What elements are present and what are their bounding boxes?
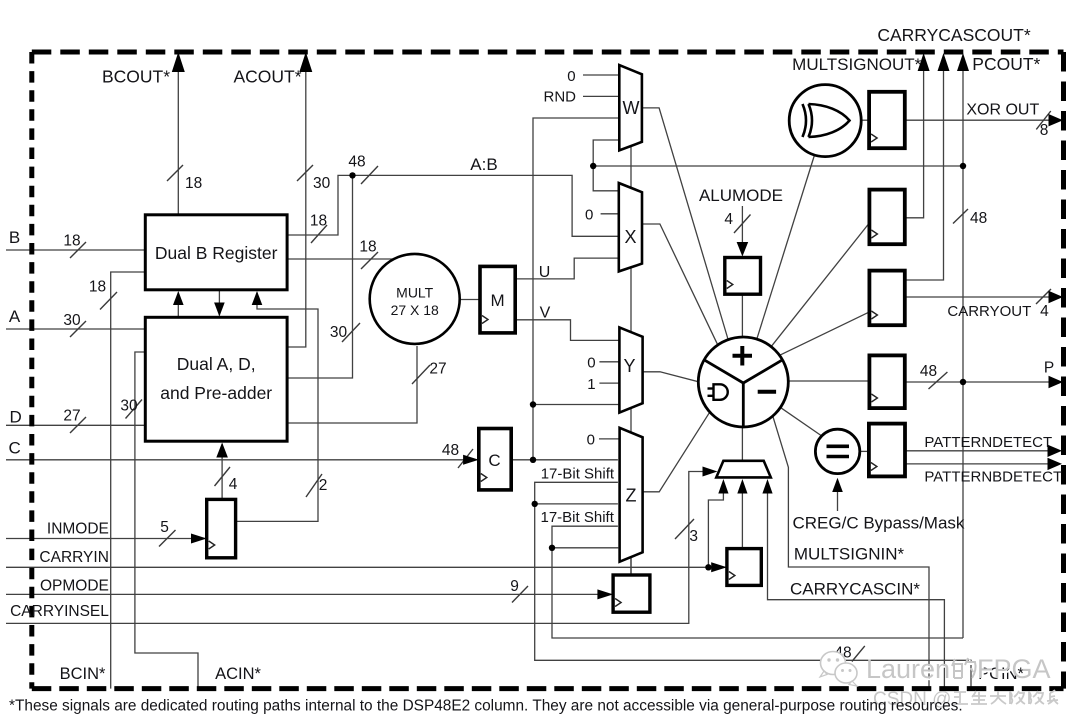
wire XOR OUT to border bbox=[905, 119, 1060, 121]
wire P register output to border bbox=[905, 381, 1060, 383]
wire Y mux output to ALU bbox=[643, 372, 699, 382]
wire ALU to P register bbox=[787, 380, 870, 382]
wire BCOUT vertical to top arrow bbox=[177, 57, 179, 215]
clock chevron C bbox=[481, 474, 487, 482]
svg-text:17-Bit Shift: 17-Bit Shift bbox=[541, 466, 615, 483]
wire input OPMODE bbox=[6, 593, 613, 595]
arrowhead OPMODE into register bbox=[597, 589, 613, 599]
svg-text:18: 18 bbox=[359, 239, 376, 256]
wire interbox arrow up left bbox=[177, 293, 179, 318]
svg-text:V: V bbox=[540, 305, 551, 322]
svg-text:M: M bbox=[491, 291, 505, 310]
wire P feedback to Z mux 17-bit shift bbox=[552, 526, 963, 638]
arrowhead BCOUT bbox=[172, 52, 185, 72]
svg-text:X: X bbox=[624, 227, 636, 247]
Dual B Register box bbox=[145, 215, 287, 290]
ALU partition lines bbox=[705, 360, 783, 427]
svg-text:17-Bit Shift: 17-Bit Shift bbox=[541, 509, 615, 526]
arrowhead INMODE into register bbox=[191, 534, 207, 544]
register OPMODE bbox=[613, 575, 650, 612]
svg-text:18: 18 bbox=[310, 213, 327, 230]
arrowhead XOR OUT border bbox=[1049, 114, 1064, 126]
slash bus width A 30 bbox=[70, 321, 86, 337]
wire input A bbox=[6, 328, 145, 330]
wire C register out to Z mux bbox=[511, 459, 618, 461]
arrowhead CARRYIN into register bbox=[711, 562, 727, 572]
wire M register V out to Y mux bbox=[515, 320, 619, 341]
svg-text:48: 48 bbox=[348, 154, 365, 171]
wire ALU to MULTSIGNOUT register bbox=[771, 223, 869, 347]
wire P branch to Z mux input 6 bbox=[552, 547, 618, 549]
wire X mux output to ALU bbox=[642, 224, 718, 345]
slash bus width CARRYOUT 4 bbox=[1036, 289, 1051, 304]
arrowhead P border bbox=[1049, 376, 1064, 388]
svg-text:ALUMODE: ALUMODE bbox=[699, 186, 783, 205]
wire ALUMODE register to ALU bbox=[741, 294, 743, 337]
svg-text:C: C bbox=[488, 451, 500, 470]
wire stub 1 into Y mux bbox=[599, 382, 619, 384]
arrowhead CARRYOUT border bbox=[1049, 291, 1064, 303]
register ALUMODE bbox=[725, 258, 761, 295]
wire MULTSIGNIN from bottom border to ALU bbox=[773, 416, 929, 689]
svg-text:Dual A, D,: Dual A, D, bbox=[177, 354, 256, 374]
slash bus width D 27 bbox=[70, 417, 86, 433]
mux Y bbox=[619, 327, 642, 412]
svg-text:30: 30 bbox=[63, 312, 81, 329]
svg-text:0: 0 bbox=[585, 207, 593, 224]
slash bus width INMODE 5 bbox=[159, 530, 176, 547]
wire AD pre-adder out to MULT bbox=[289, 346, 418, 423]
svg-text:CARRYOUT: CARRYOUT bbox=[947, 303, 1031, 320]
ALU circle bbox=[698, 337, 788, 427]
wire ACIN from bottom border to Dual A D block bbox=[135, 352, 198, 689]
svg-text:2: 2 bbox=[319, 477, 328, 494]
wire PCOUT vertical (P net) bbox=[962, 57, 964, 638]
slash bus width A path 30 bbox=[342, 323, 360, 342]
wire A path from Dual A D to A:B junction bbox=[289, 175, 353, 378]
svg-text:30: 30 bbox=[330, 324, 348, 341]
mux W bbox=[619, 65, 642, 150]
register MULTSIGNOUT bbox=[869, 190, 904, 245]
svg-text:ACOUT*: ACOUT* bbox=[233, 67, 301, 87]
wire M register U out to X mux bbox=[515, 258, 619, 279]
slash bus width B mult 18 bbox=[361, 252, 378, 269]
MULT circle bbox=[370, 254, 460, 344]
svg-text:4: 4 bbox=[229, 476, 238, 493]
wire MULTSIGNOUT register to top arrow bbox=[905, 57, 924, 218]
arrowhead C into register bbox=[463, 455, 479, 465]
XOR circle bbox=[789, 85, 861, 157]
wire input CARRYIN bbox=[6, 566, 727, 568]
svg-text:18: 18 bbox=[63, 233, 80, 250]
wire CARRYCASCIN from bottom border to carry mux bbox=[768, 482, 945, 689]
slash bus width PCIN 48 bbox=[852, 646, 865, 662]
svg-text:27: 27 bbox=[429, 361, 446, 378]
wire C vertical to W and Y muxes bbox=[533, 118, 619, 460]
clock chevron PATTERN bbox=[871, 463, 877, 471]
wire B register out to MULT bbox=[287, 258, 397, 260]
arrowhead ALUMODE into register bbox=[737, 242, 749, 257]
svg-text:D: D bbox=[9, 408, 21, 427]
clock chevron MULTSIGNOUT bbox=[871, 230, 877, 238]
mux Z bbox=[620, 428, 643, 562]
junction dot C to Y bbox=[530, 401, 536, 407]
wire CREG bypass annotation arrow stem bbox=[837, 480, 839, 511]
svg-text:PCOUT*: PCOUT* bbox=[972, 54, 1040, 74]
wire pattern register PATTERNDETECT to border bbox=[905, 450, 1060, 452]
svg-text:FPGA: FPGA bbox=[977, 654, 1051, 684]
slash bus width CARRYINSEL 3 bbox=[675, 519, 694, 539]
wire PCIN from bottom border to Z mux bbox=[535, 482, 971, 688]
clock chevron M bbox=[482, 316, 488, 324]
svg-text:W: W bbox=[623, 98, 640, 118]
arrowhead INMODE 2 into Dual B bbox=[252, 291, 263, 305]
wire input CARRYINSEL to carry mux select bbox=[6, 472, 714, 624]
wire interbox arrow down bbox=[218, 290, 220, 316]
wire PCIN branch to Z mux input 4 bbox=[535, 503, 618, 505]
slash bus width ACOUT 30 bbox=[297, 165, 313, 181]
register CARRYIN bbox=[727, 549, 761, 586]
wire stub 0 into Y mux bbox=[599, 361, 619, 363]
register P bbox=[869, 355, 904, 408]
svg-text:1: 1 bbox=[587, 376, 595, 393]
wire P into X mux bbox=[593, 166, 619, 191]
wire input C bbox=[6, 459, 479, 461]
wire CARRYOUT register to CARRYCASCOUT top arrow bbox=[905, 57, 944, 280]
svg-text:CARRYCASCIN*: CARRYCASCIN* bbox=[790, 580, 920, 599]
slash bus width B out 18 bbox=[311, 225, 327, 243]
slash bus width OPMODE 9 bbox=[512, 586, 528, 603]
wire input D bbox=[6, 424, 145, 426]
svg-text:48: 48 bbox=[920, 363, 937, 380]
svg-text:PATTERNBDETECT: PATTERNBDETECT bbox=[924, 469, 1062, 486]
carry mux trapezoid bbox=[716, 461, 771, 478]
svg-text:P: P bbox=[1044, 360, 1054, 377]
svg-text:Lauren: Lauren bbox=[866, 654, 950, 684]
clock chevron ALUMODE bbox=[727, 281, 733, 289]
clock chevron CARRYOUT bbox=[871, 311, 877, 319]
svg-text:MULT: MULT bbox=[396, 285, 434, 301]
svg-text:MULTSIGNIN*: MULTSIGNIN* bbox=[794, 545, 905, 564]
svg-text:4: 4 bbox=[724, 211, 733, 228]
svg-text:3: 3 bbox=[689, 528, 698, 545]
slash bus width C 48 bbox=[458, 449, 473, 468]
wire P into W mux bbox=[593, 140, 619, 166]
wire MULT to M register bbox=[460, 299, 480, 301]
clock chevron INMODE bbox=[209, 541, 215, 549]
arrowhead carry mux in 3 bbox=[762, 479, 772, 494]
wire ACOUT vertical from Dual A D block to top arrow bbox=[289, 57, 306, 347]
wire stub 0 into X mux bbox=[601, 213, 619, 215]
register CARRYOUT bbox=[869, 271, 904, 326]
arrowhead ACOUT bbox=[299, 52, 312, 72]
wire W mux output to ALU bbox=[642, 108, 728, 340]
svg-text:27: 27 bbox=[63, 408, 80, 425]
arrowhead interbox up bbox=[173, 291, 184, 305]
wire CARRYIN branch up to carry mux bbox=[708, 482, 723, 568]
clock chevron P bbox=[871, 394, 877, 402]
svg-text:4: 4 bbox=[1040, 303, 1049, 320]
register C bbox=[479, 429, 511, 490]
svg-text:*These signals are dedicated r: *These signals are dedicated routing pat… bbox=[9, 698, 963, 715]
pattern comparator circle bbox=[815, 429, 859, 473]
equals sign bbox=[827, 446, 850, 456]
wire INMODE reg up to Dual A D (4) bbox=[221, 444, 223, 499]
wire stub 0 into Z mux bbox=[599, 438, 620, 440]
slash bus width XOR OUT 8 bbox=[1036, 111, 1051, 129]
junction dot A:B bbox=[349, 172, 355, 178]
watermark wechat icon bbox=[820, 652, 857, 687]
XOR gate glyph bbox=[803, 104, 850, 137]
arrowhead interbox down bbox=[214, 303, 225, 317]
wire ALUMODE label to register bbox=[741, 206, 743, 245]
watermark glyph de bbox=[954, 660, 978, 680]
wire ALU to pattern comparator bbox=[780, 407, 822, 436]
junction dot PCIN bbox=[532, 501, 538, 507]
svg-text:Y: Y bbox=[623, 356, 635, 376]
wire XOR circle to XOR FF bbox=[861, 119, 869, 121]
arrowhead PATTERNDETECT border bbox=[1048, 445, 1063, 457]
arrowhead CARRYCASCOUT top bbox=[938, 53, 950, 71]
watermark glyphs wei sheng da dui dui zhang bbox=[954, 692, 1060, 706]
mux X bbox=[619, 183, 642, 271]
clock chevron CARRYIN bbox=[729, 572, 735, 580]
arrowhead PATTERNBDETECT border bbox=[1048, 458, 1063, 470]
wire comparator to pattern register bbox=[860, 450, 869, 452]
junction dot PCOUT top bbox=[960, 163, 966, 169]
svg-text:BCIN*: BCIN* bbox=[60, 665, 106, 683]
wire pattern register PATTERNBDETECT to border bbox=[905, 463, 1060, 465]
slash bus width ALUMODE 4 bbox=[734, 215, 751, 234]
wire stub 0 into W mux bbox=[583, 74, 619, 76]
svg-text:5: 5 bbox=[160, 519, 169, 536]
register XOR FF bbox=[869, 92, 905, 148]
svg-text:30: 30 bbox=[120, 398, 138, 415]
wire input B bbox=[6, 249, 145, 251]
svg-text:CREG/C Bypass/Mask: CREG/C Bypass/Mask bbox=[793, 514, 965, 533]
wire OPMODE register vertical mux select bbox=[630, 146, 632, 575]
arrowhead MULTSIGNOUT top bbox=[918, 53, 930, 71]
register M bbox=[480, 266, 515, 333]
svg-text:U: U bbox=[539, 264, 551, 281]
arrowhead PCOUT top bbox=[957, 53, 969, 71]
svg-text:18: 18 bbox=[89, 279, 106, 296]
wire CARRYOUT to border bbox=[905, 296, 1060, 298]
ALU plus sign bbox=[733, 346, 753, 366]
slash bus width P 48 bbox=[929, 372, 948, 389]
svg-text:C: C bbox=[8, 439, 20, 458]
slash bus width INMODE B 2 bbox=[306, 474, 322, 497]
svg-text:27 X 18: 27 X 18 bbox=[391, 302, 439, 318]
wire carry mux output to ALU bbox=[741, 427, 743, 461]
svg-text:9: 9 bbox=[510, 578, 519, 595]
slash bus width BCOUT 18 bbox=[167, 165, 183, 181]
wire ALU to CARRYOUT register bbox=[779, 312, 869, 356]
junction dot P to Z bbox=[549, 545, 555, 551]
svg-text:CARRYCASCOUT*: CARRYCASCOUT* bbox=[877, 25, 1031, 45]
clock chevron OPMODE bbox=[615, 599, 621, 607]
svg-text:BCOUT*: BCOUT* bbox=[102, 67, 170, 87]
svg-text:0: 0 bbox=[587, 355, 595, 372]
arrowhead carry mux in 2 bbox=[737, 479, 747, 494]
register INMODE bbox=[207, 499, 236, 557]
svg-text:30: 30 bbox=[313, 175, 331, 192]
svg-text:8: 8 bbox=[1040, 122, 1049, 139]
svg-text:0: 0 bbox=[587, 432, 595, 449]
ALU and gate glyph bbox=[708, 384, 728, 400]
svg-text:and Pre-adder: and Pre-adder bbox=[160, 383, 272, 403]
wire ALU to XOR circle bbox=[757, 155, 815, 339]
svg-text:48: 48 bbox=[970, 210, 987, 227]
svg-text:ACIN*: ACIN* bbox=[215, 665, 261, 683]
wire Z mux output to ALU bbox=[643, 412, 710, 492]
junction dot P output bbox=[960, 379, 966, 385]
svg-text:OPMODE: OPMODE bbox=[40, 577, 109, 594]
wire CARRYIN register output to carry mux bbox=[741, 482, 743, 549]
arrowhead carry mux in 1 bbox=[718, 479, 728, 494]
wire input INMODE bbox=[6, 538, 207, 540]
wire Z mux bottom to OPMODE register bbox=[630, 557, 632, 575]
slash bus width BCIN 18 bbox=[100, 292, 117, 310]
slash bus width A:B 48 bbox=[361, 166, 378, 184]
register PATTERN bbox=[869, 424, 905, 477]
svg-text:A: A bbox=[9, 307, 21, 326]
svg-text:RND: RND bbox=[544, 89, 577, 106]
wire B register out to A:B junction bbox=[287, 175, 352, 235]
svg-text:Z: Z bbox=[626, 486, 637, 506]
Dual A D and Pre-adder box bbox=[145, 317, 287, 441]
wire INMODE reg to Dual B Register (2) bbox=[236, 293, 318, 522]
wire A:B bus to X mux bbox=[353, 175, 619, 236]
arrowhead INMODE 4 into Dual A D bbox=[216, 443, 228, 458]
ALU minus sign bbox=[758, 390, 776, 394]
svg-text:48: 48 bbox=[442, 442, 459, 459]
svg-text:PATTERNDETECT: PATTERNDETECT bbox=[924, 434, 1052, 451]
wire BCIN from bottom border to Dual B Register bbox=[111, 272, 146, 689]
slash bus width PCOUT 48 bbox=[953, 209, 968, 224]
slash bus width B 18 bbox=[70, 242, 86, 258]
svg-text:18: 18 bbox=[185, 175, 202, 192]
svg-text:MULTSIGNOUT*: MULTSIGNOUT* bbox=[792, 55, 921, 74]
slash bus width ACIN 30 bbox=[126, 400, 143, 419]
svg-text:B: B bbox=[9, 228, 20, 247]
svg-text:Dual B Register: Dual B Register bbox=[155, 243, 278, 263]
svg-text:A:B: A:B bbox=[470, 155, 497, 174]
clock chevron XOR FF bbox=[871, 134, 877, 142]
wire P feedback horizontal to W X muxes bbox=[593, 165, 963, 167]
junction dot C wire bbox=[530, 457, 536, 463]
junction dot P feedback left bbox=[590, 163, 596, 169]
junction dot CARRYIN bbox=[705, 564, 711, 570]
arrowhead carry mux select bbox=[703, 467, 718, 477]
svg-text:XOR OUT: XOR OUT bbox=[966, 102, 1039, 119]
svg-text:CARRYIN: CARRYIN bbox=[39, 549, 108, 566]
slash bus width mult 27 bbox=[412, 365, 430, 384]
arrowhead CREG bypass annotation bbox=[832, 478, 843, 492]
svg-text:CARRYINSEL: CARRYINSEL bbox=[10, 603, 109, 620]
svg-text:0: 0 bbox=[567, 68, 575, 85]
svg-text:INMODE: INMODE bbox=[47, 521, 109, 538]
slash bus width INMODE A 4 bbox=[215, 467, 231, 486]
wire stub RND into W mux bbox=[583, 95, 619, 97]
wire C branch to Y mux bbox=[533, 404, 619, 406]
